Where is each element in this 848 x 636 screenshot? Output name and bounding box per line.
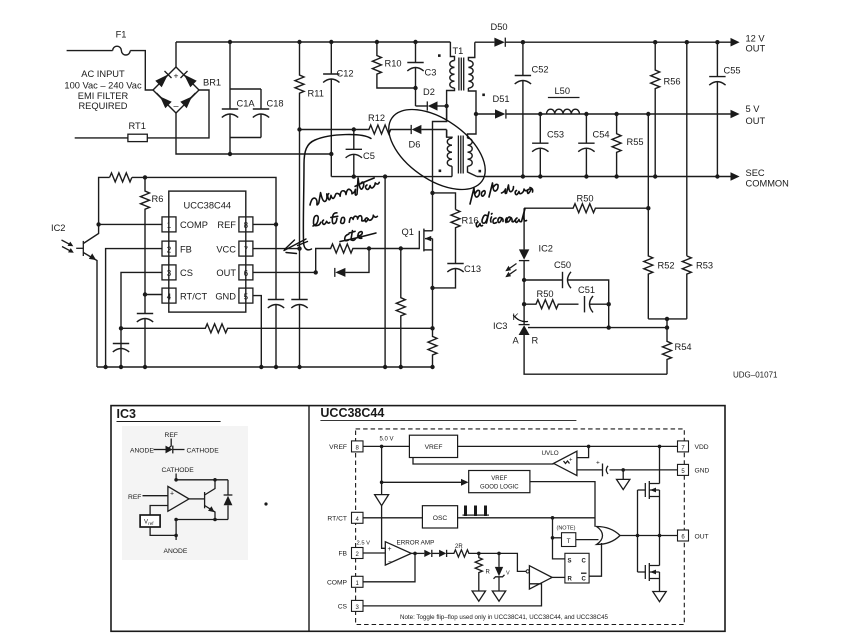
handwritten cte underline xyxy=(340,233,376,242)
handwritten t-bar stroke xyxy=(354,178,375,186)
svg-text:C54: C54 xyxy=(593,130,610,140)
svg-text:FB: FB xyxy=(180,244,192,254)
svg-text:2R: 2R xyxy=(455,544,463,550)
wire UVLO plus to VDD rail xyxy=(577,446,589,457)
handwritten note cte xyxy=(344,230,363,242)
svg-text:−: − xyxy=(388,559,392,566)
pin 5 GND xyxy=(215,288,253,303)
resistor R to ground xyxy=(472,553,490,601)
svg-text:C55: C55 xyxy=(724,66,741,76)
svg-text:COMP: COMP xyxy=(180,220,208,230)
svg-text:C51: C51 xyxy=(578,285,595,295)
handwritten note de forma xyxy=(312,209,378,226)
svg-text:ANODE: ANODE xyxy=(130,448,154,455)
svg-text:OUT: OUT xyxy=(746,44,766,54)
capacitor C51 xyxy=(578,285,609,312)
svg-text:C5: C5 xyxy=(363,151,375,161)
transformer T1 core lower xyxy=(458,136,463,174)
wire OUT row xyxy=(253,271,316,273)
node REF xyxy=(274,222,278,226)
svg-text:UCC38C44: UCC38C44 xyxy=(320,406,384,420)
T flip-flop xyxy=(557,526,576,547)
node C5 top xyxy=(352,127,356,131)
svg-text:(NOTE): (NOTE) xyxy=(557,526,576,532)
local ground row under C5 xyxy=(331,176,452,178)
svg-text:C52: C52 xyxy=(532,65,549,75)
svg-text:R: R xyxy=(532,336,539,346)
svg-text:VREF: VREF xyxy=(329,444,347,451)
pin 7 VCC xyxy=(216,241,253,256)
lower output MOSFET xyxy=(638,536,667,602)
node opto collector on COMP row xyxy=(96,222,100,226)
buffer triangle xyxy=(375,495,389,506)
ground drop from local ground row xyxy=(384,177,386,367)
rail A current sense line xyxy=(121,324,433,333)
panel divider xyxy=(308,406,310,632)
wire pin8 to VREF block xyxy=(363,445,409,447)
svg-text:D51: D51 xyxy=(493,94,510,104)
optocoupler IC2 transistor xyxy=(51,223,99,367)
wire pin4 row xyxy=(145,294,162,296)
wire GND pin drop xyxy=(253,296,261,367)
node dots on 12V rail xyxy=(521,40,720,44)
resistor R11 xyxy=(295,42,324,130)
node C5 bottom on ground row xyxy=(352,174,356,178)
VCC node row xyxy=(300,129,368,131)
svg-text:UCC38C44: UCC38C44 xyxy=(184,201,232,211)
zener clamp xyxy=(492,552,510,602)
transformer T1 5V secondary winding xyxy=(468,114,482,177)
svg-text:R12: R12 xyxy=(368,113,385,123)
top rail xyxy=(176,41,450,43)
node divider center xyxy=(665,317,669,321)
node R10/C3 junction xyxy=(413,86,417,90)
svg-text:RT/CT: RT/CT xyxy=(180,291,208,301)
svg-text:+: + xyxy=(388,546,392,553)
sec common arrow xyxy=(731,168,789,189)
LED IC2 xyxy=(505,208,553,280)
wire bridge bottom corner to primary return rail xyxy=(176,113,331,154)
VREF GOOD LOGIC block xyxy=(469,471,530,493)
svg-text:GND: GND xyxy=(695,468,710,475)
node VCC xyxy=(297,246,301,250)
svg-text:+: + xyxy=(170,491,174,498)
wire FB row xyxy=(106,249,162,367)
svg-text:SEC: SEC xyxy=(746,168,765,178)
svg-text:S: S xyxy=(568,559,572,565)
diode D6 xyxy=(409,125,447,150)
node C50 network to ref row xyxy=(607,325,611,329)
resistor R55 xyxy=(612,114,643,177)
transformer T1 core upper xyxy=(459,58,464,91)
wire bridge right corner to RT1 xyxy=(147,90,209,138)
handwritten note bobineado xyxy=(470,183,533,204)
svg-text:–: – xyxy=(173,101,178,111)
pin 4 RT/CT xyxy=(162,288,208,303)
CS wire to comparator xyxy=(363,584,542,606)
svg-text:D2: D2 xyxy=(423,87,435,97)
wire to PWM comparator plus xyxy=(479,553,526,571)
diode D2 xyxy=(416,87,447,111)
resistor 2R xyxy=(447,544,479,557)
svg-text:REQUIRED: REQUIRED xyxy=(78,101,127,111)
svg-text:100 Vac – 240 Vac: 100 Vac – 240 Vac xyxy=(64,81,142,91)
VREF block xyxy=(409,435,457,457)
svg-text:5: 5 xyxy=(244,292,249,301)
svg-text:A: A xyxy=(513,336,520,346)
SR latch xyxy=(565,553,589,583)
node R11 bottom / VCC feed xyxy=(297,127,301,131)
capacitor CT xyxy=(137,295,153,368)
IC3 panel title xyxy=(117,407,221,422)
svg-text:IC2: IC2 xyxy=(539,244,553,254)
svg-text:R53: R53 xyxy=(696,261,713,271)
svg-text:4: 4 xyxy=(167,292,172,301)
pin 8 REF xyxy=(217,217,253,232)
node gnd tap xyxy=(621,468,625,472)
VREF output rail to VDD pin xyxy=(458,445,678,447)
node D2 on drain branch xyxy=(444,104,448,108)
PWM comparator xyxy=(529,566,552,589)
svg-text:OUT: OUT xyxy=(216,268,236,278)
handwritten arrow at VCC wire xyxy=(284,239,308,254)
capacitor C50 xyxy=(524,260,609,328)
wire 5V sense drop xyxy=(647,114,649,208)
UCC38C44 IC box xyxy=(169,191,246,312)
svg-text:D6: D6 xyxy=(409,140,421,150)
svg-text:C53: C53 xyxy=(547,130,564,140)
AC input label block xyxy=(64,69,142,111)
pin 3 CS xyxy=(162,265,193,280)
thermistor RT1 xyxy=(128,121,147,142)
svg-text:AC INPUT: AC INPUT xyxy=(81,69,125,79)
transformer T1 primary winding xyxy=(438,42,463,122)
node LED cathode / C50 tap xyxy=(522,278,526,282)
svg-text:OUT: OUT xyxy=(695,534,709,541)
node C1A bottom on return rail xyxy=(228,152,232,156)
svg-text:5 V: 5 V xyxy=(746,104,761,114)
svg-text:7: 7 xyxy=(244,245,249,254)
svg-text:VREF: VREF xyxy=(491,476,507,482)
svg-text:REF: REF xyxy=(217,220,236,230)
wire snubber branch xyxy=(433,193,456,210)
capacitor C5 xyxy=(346,130,375,177)
svg-text:IC3: IC3 xyxy=(493,321,507,331)
svg-text:2.5 V: 2.5 V xyxy=(357,541,371,547)
IC3 internal circuit xyxy=(128,467,232,555)
svg-text:CS: CS xyxy=(338,604,348,611)
svg-text:T1: T1 xyxy=(453,46,464,56)
resistor R53 xyxy=(682,256,713,319)
resistor R10 xyxy=(372,42,415,88)
node drain snubber tap xyxy=(430,191,434,195)
node ground row drop top xyxy=(383,174,387,178)
sec common rail xyxy=(477,176,731,178)
wire 5V internal drop xyxy=(381,446,383,494)
node R6 top xyxy=(143,175,147,179)
svg-text:RT/CT: RT/CT xyxy=(327,515,347,522)
svg-text:8: 8 xyxy=(244,221,249,230)
T output to OR gate xyxy=(576,539,599,541)
svg-text:Note: Toggle flip–flop used o: Note: Toggle flip–flop used only in UCC3… xyxy=(400,614,609,621)
capacitor C55 xyxy=(709,42,740,176)
clock wire xyxy=(458,517,595,519)
svg-text:C18: C18 xyxy=(267,99,284,109)
svg-text:UDG–01071: UDG–01071 xyxy=(733,371,778,380)
svg-text:OSC: OSC xyxy=(433,515,448,522)
wire buffer to error amp xyxy=(382,506,386,549)
svg-text:12 V: 12 V xyxy=(746,34,766,44)
svg-text:R50: R50 xyxy=(577,194,594,204)
node dots on sec common rail xyxy=(521,174,720,178)
wire REF row xyxy=(253,223,276,225)
svg-text:UVLO: UVLO xyxy=(542,450,559,457)
gate network diode xyxy=(335,249,369,277)
svg-text:+: + xyxy=(596,460,600,467)
capacitor VCC bypass xyxy=(291,130,307,368)
resistor R52 xyxy=(644,208,675,319)
OR gate xyxy=(597,527,621,545)
svg-text:FB: FB xyxy=(338,551,347,558)
capacitor C13 xyxy=(433,264,482,288)
svg-text:Q1: Q1 xyxy=(402,227,414,237)
svg-text:R56: R56 xyxy=(664,77,681,87)
node compensation mid xyxy=(607,302,611,306)
node 5V sense / R50 xyxy=(646,206,650,210)
wire R12 to D6 xyxy=(393,129,412,131)
handwritten note alimentar xyxy=(307,175,381,205)
node gate network right xyxy=(367,246,371,250)
handwritten ellipse around lower windings xyxy=(375,93,500,205)
capacitor CS filter xyxy=(113,344,129,353)
svg-text:R: R xyxy=(486,570,491,576)
svg-text:CS: CS xyxy=(180,268,193,278)
ground symbol internal xyxy=(617,470,630,490)
node dots on rail B xyxy=(103,365,434,369)
svg-text:ANODE: ANODE xyxy=(164,548,188,555)
C-bar output to OR gate xyxy=(589,543,601,576)
svg-text:OUT: OUT xyxy=(746,116,766,126)
capacitor C1A xyxy=(222,42,284,154)
fuse F1 xyxy=(113,30,131,55)
pin COMP 1 xyxy=(327,576,363,587)
capacitor C54 xyxy=(578,114,609,177)
capacitor C52 xyxy=(515,42,549,176)
svg-text:F1: F1 xyxy=(116,30,127,40)
wire IC3 anode return xyxy=(524,335,667,374)
UVLO comparator xyxy=(542,450,577,476)
pin 1 COMP xyxy=(162,217,208,232)
svg-text:1: 1 xyxy=(167,221,172,230)
svg-text:IC2: IC2 xyxy=(51,223,65,233)
svg-text:COMP: COMP xyxy=(327,579,348,586)
pin 6 OUT xyxy=(216,265,253,280)
dashed IC boundary xyxy=(356,429,685,625)
pin RT/CT 4 xyxy=(327,512,363,523)
svg-text:RT1: RT1 xyxy=(129,121,146,131)
UCC38C44 panel title xyxy=(320,406,576,420)
svg-text:C1A: C1A xyxy=(237,99,256,109)
battery symbol xyxy=(577,460,678,477)
resistor opto pullup xyxy=(110,173,132,182)
error amp output diodes xyxy=(411,550,446,557)
clock drop to flip-flops xyxy=(553,518,565,559)
wire gate drive to Q1 xyxy=(369,248,419,250)
node gate network left xyxy=(314,270,318,274)
comparator output to R input xyxy=(552,576,565,578)
svg-text:R6: R6 xyxy=(152,194,164,204)
wire divider bridge xyxy=(648,318,687,320)
svg-text:R54: R54 xyxy=(675,342,692,352)
wire D6 anode to aux winding xyxy=(446,130,448,138)
resistor R16 xyxy=(451,210,479,264)
svg-text:REF: REF xyxy=(128,494,141,501)
drain wire from D2 node to Q1 xyxy=(433,106,447,231)
svg-text:2: 2 xyxy=(167,245,172,254)
node gate pulldown tap xyxy=(399,246,403,250)
svg-text:5.0 V: 5.0 V xyxy=(380,437,394,443)
svg-text:K: K xyxy=(513,312,520,322)
svg-text:R11: R11 xyxy=(308,89,324,99)
capacitor C53 xyxy=(532,114,564,177)
capacitor REF bypass xyxy=(268,224,284,367)
node C13 return on source line xyxy=(430,286,434,290)
svg-text:R55: R55 xyxy=(627,137,644,147)
wire CS row xyxy=(121,272,162,367)
wire fuse to bridge left corner xyxy=(130,51,153,90)
handwritten note adicional xyxy=(476,209,526,227)
node CS at rail A xyxy=(119,326,123,330)
svg-text:L50: L50 xyxy=(555,86,571,96)
scan wash background xyxy=(122,426,248,560)
wire IC3 ref row xyxy=(528,327,667,329)
handwritten pointer curve xyxy=(303,135,371,250)
svg-text:T: T xyxy=(567,538,571,545)
wire VCC row xyxy=(253,248,300,250)
svg-text:R: R xyxy=(568,577,573,583)
svg-text:VDD: VDD xyxy=(695,444,709,451)
gate series resistor branch xyxy=(316,244,369,272)
OR output row xyxy=(620,535,678,537)
svg-text:EMI FILTER: EMI FILTER xyxy=(78,91,129,101)
wire opto collector pullup row xyxy=(99,177,110,224)
12V out arrow xyxy=(731,34,766,54)
wire AC line top xyxy=(67,50,113,52)
node Q1 source / rail A junction xyxy=(430,326,434,330)
capacitor C12 xyxy=(323,42,353,177)
pin CS 3 xyxy=(338,600,363,611)
totem gate drive vertical xyxy=(637,490,639,572)
node RT/CT xyxy=(143,292,147,296)
capacitor C3 xyxy=(407,42,436,106)
COMP wire xyxy=(363,553,415,581)
svg-text:V: V xyxy=(506,571,510,577)
wire AC line bottom xyxy=(75,137,128,139)
svg-text:GOOD LOGIC: GOOD LOGIC xyxy=(480,484,519,490)
svg-text:R50: R50 xyxy=(537,289,554,299)
svg-text:IC3: IC3 xyxy=(117,407,137,421)
svg-text:C: C xyxy=(582,559,587,565)
node C12 line at return rail xyxy=(329,152,333,156)
svg-text:CATHODE: CATHODE xyxy=(162,467,195,474)
svg-text:C13: C13 xyxy=(464,264,481,274)
diode D50 xyxy=(475,22,731,47)
resistor R56 xyxy=(651,42,681,176)
stray dot xyxy=(264,502,267,505)
svg-text:VREF: VREF xyxy=(425,444,443,451)
node dots on 5V row xyxy=(538,112,650,116)
svg-text:+: + xyxy=(174,71,179,81)
shunt regulator IC3 xyxy=(493,280,539,346)
pin 2 FB xyxy=(162,241,192,256)
svg-text:R10: R10 xyxy=(385,59,402,69)
transformer T1 aux winding xyxy=(439,130,452,177)
resistor R12 xyxy=(367,113,392,134)
resistor R50 lower xyxy=(524,289,578,309)
svg-text:R52: R52 xyxy=(658,261,675,271)
current sense resistor xyxy=(428,328,437,367)
5V out arrow xyxy=(731,104,766,126)
svg-text:VCC: VCC xyxy=(216,244,236,254)
wire COMP row xyxy=(99,223,162,225)
resistor R50 upper xyxy=(524,194,648,213)
MOSFET Q1 xyxy=(402,227,433,328)
svg-text:ref: ref xyxy=(148,521,154,526)
svg-text:3: 3 xyxy=(167,269,172,278)
wire bridge top corner to top rail xyxy=(175,42,177,67)
svg-text:C: C xyxy=(582,577,587,583)
resistor gate pulldown xyxy=(396,249,405,368)
error amp xyxy=(357,540,435,567)
bridge rectifier BR1 xyxy=(153,67,221,113)
svg-text:COMMON: COMMON xyxy=(746,179,789,189)
svg-text:C12: C12 xyxy=(337,69,354,79)
IC3 mini symbol xyxy=(130,432,219,455)
resistor R54 xyxy=(663,319,692,374)
wire VREF bottom to UVLO input xyxy=(413,458,554,465)
node divider to ref row xyxy=(665,325,669,329)
OSC block xyxy=(363,506,458,528)
svg-text:ERROR AMP: ERROR AMP xyxy=(397,540,435,547)
FB wire xyxy=(363,552,385,554)
clock pulses xyxy=(463,506,490,517)
wire to VREF GOOD LOGIC with arrow xyxy=(382,481,462,483)
upper output MOSFET xyxy=(638,446,660,535)
pin VDD 7 xyxy=(678,441,709,452)
node 12V-5V winding tap xyxy=(474,112,478,116)
svg-text:6: 6 xyxy=(244,269,249,278)
svg-text:CATHODE: CATHODE xyxy=(187,448,220,455)
resistor R6 xyxy=(141,177,164,294)
inductor L50 xyxy=(547,86,580,114)
diode D51 xyxy=(476,94,731,119)
node dots on top rail xyxy=(228,40,418,44)
VREF GOOD LOGIC output to OR gate xyxy=(530,482,595,527)
transformer T1 12V secondary winding xyxy=(468,42,485,114)
bottom detail outer box xyxy=(111,406,725,632)
svg-text:C50: C50 xyxy=(554,260,571,270)
svg-text:C3: C3 xyxy=(425,68,437,78)
rail B primary ground xyxy=(97,366,433,368)
svg-text:GND: GND xyxy=(215,291,236,301)
svg-text:D50: D50 xyxy=(491,22,508,32)
pin FB 2 xyxy=(338,548,363,559)
pin GND 5 xyxy=(678,464,710,475)
svg-text:BR1: BR1 xyxy=(203,78,221,88)
node R50 lower left xyxy=(522,302,526,306)
wire pullup to REF drop xyxy=(132,177,276,224)
pin OUT 6 xyxy=(678,530,709,541)
